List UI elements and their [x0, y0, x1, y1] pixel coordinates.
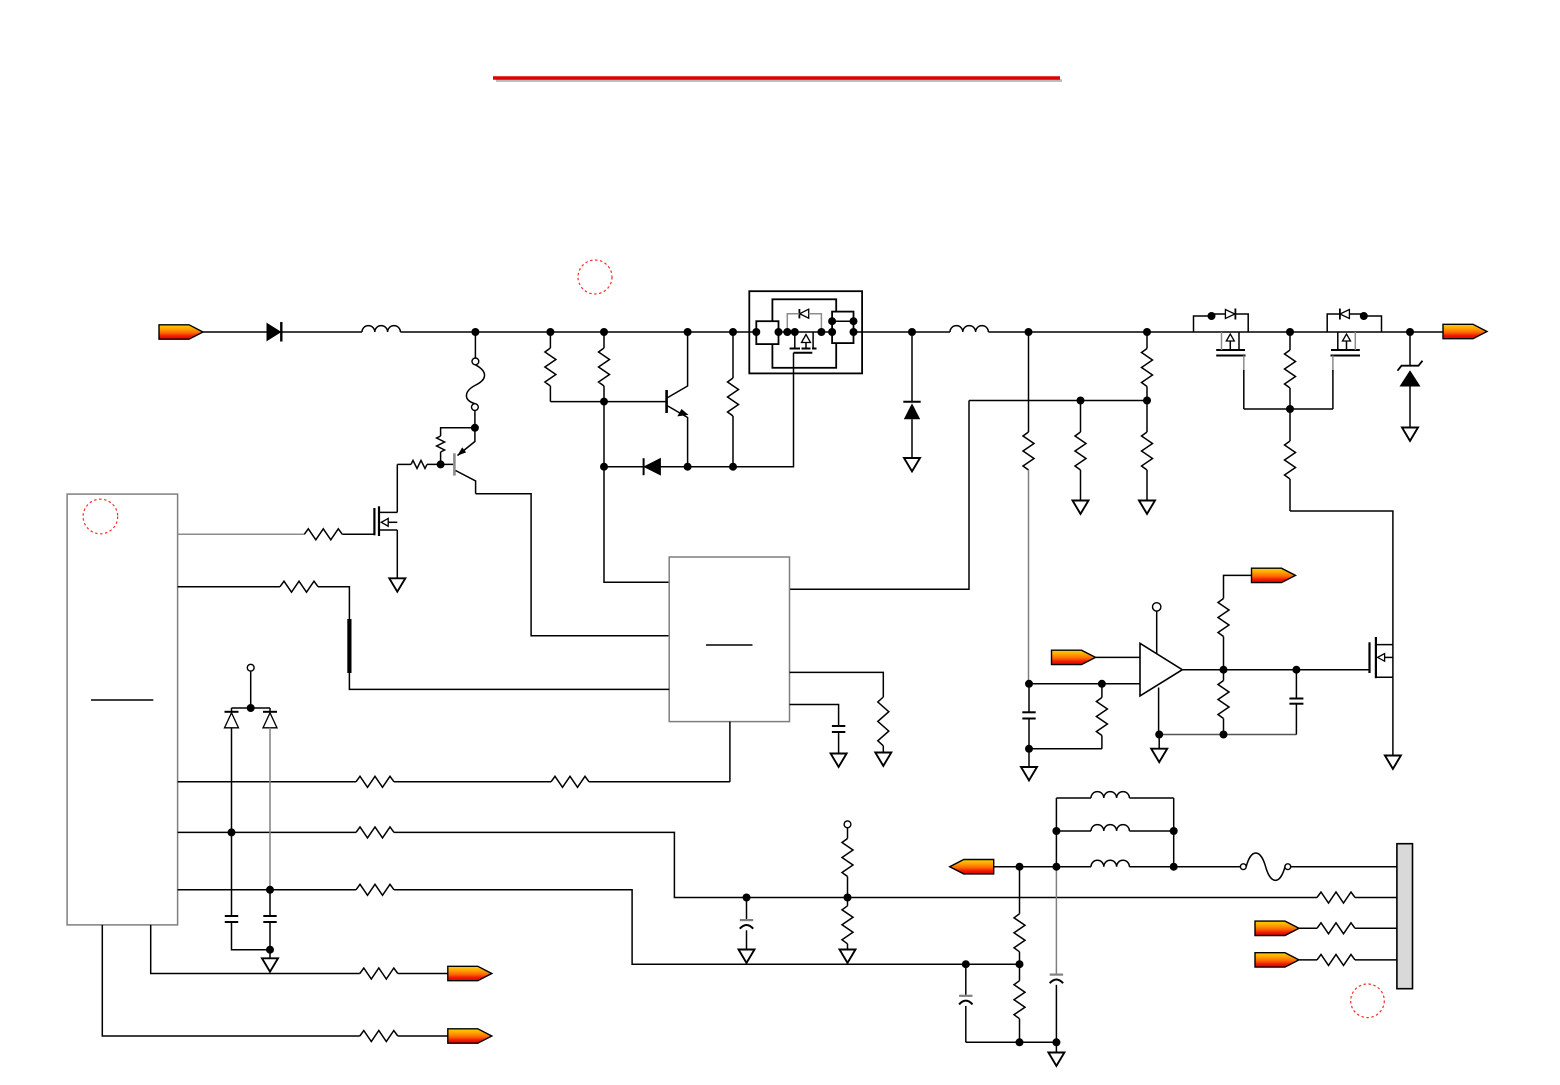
- resistor R11: [1142, 401, 1153, 501]
- wire U1 pin5: [178, 889, 356, 891]
- resistor R29 (pull-up): [842, 828, 853, 898]
- resistor R21: [356, 884, 394, 895]
- capacitor C3 (polarized): [1022, 684, 1035, 749]
- resistor R30 (pull-down): [842, 898, 853, 949]
- capacitor C4: [1289, 670, 1303, 735]
- ground (under R11): [1139, 501, 1155, 514]
- resistor R23: [360, 1031, 398, 1042]
- module U4 outer box: [749, 291, 862, 373]
- annotation circle B (red dotted): [83, 499, 118, 534]
- module U4 MOSFET glyph: [790, 332, 817, 353]
- wire U2 right pin to R15: [790, 672, 884, 697]
- ground (under Q6): [1385, 756, 1401, 769]
- resistor R26: [1218, 670, 1229, 735]
- resistor R8: [728, 332, 739, 467]
- annotation circle B redraw (red dotted, over box): [83, 499, 118, 534]
- resistor R9 (sense top): [1142, 332, 1153, 401]
- port P3: [448, 966, 492, 980]
- diode D3 (to ground): [903, 332, 920, 458]
- wire C3/R24 common: [1029, 748, 1102, 750]
- module U4 body diode D4: [787, 309, 821, 332]
- wire sense net y=400.5: [969, 400, 1147, 402]
- wire ground stem x=1056.4: [1055, 1042, 1057, 1052]
- wire R19 to U2 bottom: [589, 781, 730, 783]
- test point TP1: [247, 664, 254, 671]
- module U4 inner box: [772, 299, 836, 368]
- ground (under U3): [1151, 749, 1167, 762]
- resistor R18: [356, 776, 394, 787]
- resistor R6: [545, 332, 556, 402]
- wire Q1 drain up: [396, 464, 398, 512]
- transistor Q2 (PNP): [454, 428, 475, 494]
- diode D1 (series input): [267, 322, 281, 342]
- inductor L5 (row y=866.7): [1091, 860, 1129, 866]
- wire node E to resistor R5: [441, 428, 475, 465]
- wire U2 right pin to C5: [790, 705, 839, 726]
- wire sense to U2 pin: [790, 401, 970, 590]
- resistor R15: [878, 697, 889, 752]
- ground (under Q1): [389, 578, 405, 591]
- annotation circle A (red dotted): [578, 260, 612, 294]
- wire bottom net y=735.1: [1159, 734, 1296, 736]
- IC U1 box: [67, 494, 178, 925]
- op-amp U3: [1140, 643, 1182, 696]
- module U4 right cell: [832, 312, 853, 344]
- wire U1 pin4: [178, 831, 356, 833]
- wire Q2 collector to U2 pin: [476, 494, 670, 636]
- capacitor C8 (polarized, x=746.5): [740, 898, 753, 949]
- wire U3 bottom pin: [1158, 688, 1160, 735]
- module U4 top link wire: [832, 320, 853, 322]
- resistor R7: [599, 332, 610, 402]
- diode D7: [263, 712, 277, 728]
- ground (under D5): [1402, 428, 1418, 441]
- resistor R19: [551, 776, 589, 787]
- wire base lead: [397, 463, 453, 465]
- transistor Q6 (N-MOSFET right): [1370, 637, 1393, 678]
- wire base net y=401.6: [550, 401, 665, 403]
- resistor R10: [1075, 401, 1086, 501]
- wire R16 to Q1 gate: [342, 533, 374, 535]
- wire C5 to ground: [838, 732, 840, 753]
- port P6 (pull-up supply): [1252, 568, 1296, 582]
- fuse F1 (squiggle with terminals): [466, 332, 484, 428]
- wire gate node y=409: [1244, 408, 1333, 410]
- capacitor C2: [263, 915, 276, 917]
- IC U2 label dash: [706, 644, 753, 646]
- transistor Q4 (P-MOSFET left): [1194, 309, 1249, 410]
- wire U1 pin2: [178, 586, 280, 588]
- resistor R27 (chain x=1019.5 upper): [1014, 867, 1025, 965]
- title rule (red): [493, 76, 1060, 79]
- wire U1 bottom pin b2: [102, 925, 360, 1036]
- diode D6: [225, 712, 239, 728]
- breaker F2: [1240, 853, 1290, 880]
- inductor L4 (row y=831): [1056, 825, 1173, 831]
- wire R18 to R19: [394, 781, 551, 783]
- ground (under D3): [904, 458, 920, 471]
- wire Q6 source to ground: [1392, 677, 1394, 754]
- ground (under C5): [831, 754, 847, 767]
- resistor R13 (gate bleed): [1285, 332, 1296, 409]
- wire R20 long run to connector: [394, 832, 1317, 897]
- test point TP3: [844, 821, 851, 828]
- wire U3 output net: [1182, 669, 1369, 671]
- IC U1 label dash: [91, 699, 153, 701]
- wire R17 to U2 via bead: [318, 587, 669, 690]
- module U4 left cell: [756, 321, 778, 344]
- title rule shadow: [496, 79, 1062, 82]
- capacitor C7 (polarized, x=965.8): [959, 964, 972, 1042]
- resistor R14: [1285, 409, 1296, 511]
- wire inverting input net: [1029, 683, 1140, 685]
- transistor Q1 (N-MOSFET): [374, 506, 397, 536]
- capacitor C5: [832, 725, 845, 727]
- resistor R5 (small vertical): [437, 436, 445, 452]
- port P7 (left-pointing): [950, 860, 994, 874]
- resistor R4 (small horizontal, base): [411, 460, 427, 468]
- wire R21 run to bottom net: [394, 890, 1020, 964]
- IC U2 box: [669, 557, 789, 722]
- resistor R33: [1299, 954, 1397, 965]
- port P1 (input, left): [159, 325, 203, 339]
- capacitor C1: [225, 915, 238, 917]
- resistor R28 (chain x=1019.5 lower): [1014, 964, 1025, 1042]
- ground (under R15): [875, 753, 891, 766]
- wire gate node to Q6 drain: [1290, 511, 1393, 645]
- inductor L1: [362, 326, 400, 332]
- junction dots (all nets): [228, 312, 1415, 1046]
- wire parallel inductor right riser: [1173, 798, 1175, 867]
- wire R23 to port: [398, 1035, 448, 1037]
- inductor L3 (row y=798): [1056, 792, 1173, 798]
- wire U1 pin1 (gate drive): [178, 533, 305, 535]
- port P5 (op-amp +): [1052, 650, 1096, 664]
- wire D6 anode chain: [231, 728, 233, 916]
- transistor Q3 (NPN): [667, 332, 689, 467]
- wire TP1 down: [232, 671, 271, 712]
- ground (under C2): [262, 958, 278, 971]
- diode D2 (pointing left): [644, 458, 661, 475]
- wire U1 pin3: [178, 781, 356, 783]
- wire U2 bottom pin: [729, 722, 731, 782]
- ground (under R10): [1073, 501, 1089, 514]
- resistor R25: [1218, 599, 1229, 670]
- wire clamp net y=466.7: [604, 466, 733, 468]
- inductor L2: [950, 326, 988, 332]
- resistor R20: [356, 827, 394, 838]
- ground (under C8): [739, 950, 755, 963]
- wire R22 to port: [398, 973, 448, 975]
- connector J1: [1397, 844, 1413, 989]
- wire parallel inductor left riser: [1055, 798, 1057, 867]
- wire D7 anode chain: [269, 728, 271, 916]
- wire P5 to U3+: [1096, 656, 1141, 658]
- port P8: [1255, 921, 1299, 935]
- wire bottom common y=1042.3: [966, 1041, 1057, 1043]
- wire P6 to R25: [1224, 575, 1252, 598]
- annotation circle C (red dotted): [1351, 984, 1385, 1018]
- resistor R22: [360, 968, 398, 979]
- diode D5 (TVS at output): [1398, 332, 1423, 427]
- resistor R17: [280, 581, 318, 592]
- wire to ground under C3: [1028, 749, 1030, 767]
- ground (bottom right): [1048, 1053, 1064, 1066]
- wire U1 bottom pin b1: [151, 925, 360, 974]
- port P9: [1255, 953, 1299, 967]
- ground (under R30): [840, 950, 856, 963]
- ground (under C3): [1021, 767, 1037, 780]
- capacitor C6 (polarized, x=1056.4): [1050, 867, 1063, 1043]
- resistor R31 (to connector, y=897.5): [1317, 892, 1397, 903]
- wire Q1 source to ground: [396, 530, 398, 578]
- port P4: [448, 1029, 492, 1043]
- resistor R12 (feedback tap): [1023, 332, 1034, 684]
- wire x=604 down to U2: [604, 402, 669, 583]
- ferrite bead FB1: [347, 619, 351, 673]
- wire C1 to common: [232, 922, 271, 949]
- wire VIN rail: [203, 331, 1443, 333]
- transistor Q5 (P-MOSFET right): [1327, 309, 1381, 410]
- wire output filter net y=866.7: [994, 866, 1397, 868]
- wire U3 ground stem: [1158, 735, 1160, 749]
- wire C2 to ground: [269, 922, 271, 958]
- port P2 (output, right): [1443, 324, 1487, 338]
- resistor R24 (fb): [1096, 684, 1107, 749]
- resistor R32: [1299, 923, 1397, 934]
- supply pin TP2: [1153, 603, 1161, 654]
- resistor R16: [304, 529, 342, 540]
- wire U4 gate pulldown: [733, 353, 794, 467]
